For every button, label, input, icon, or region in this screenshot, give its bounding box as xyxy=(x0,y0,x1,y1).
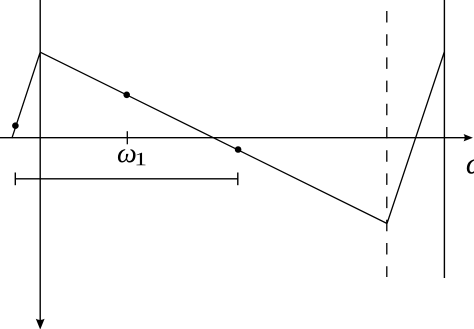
dot 3 xyxy=(235,146,242,153)
dot 2 xyxy=(123,92,130,99)
solid vertical line right xyxy=(443,0,445,278)
omega1 label: omega glyph xyxy=(118,149,136,162)
tick at omega1 xyxy=(126,131,128,144)
omega1 label: subscript 1 xyxy=(136,153,145,166)
omega axis label (clipped at right edge) xyxy=(467,159,474,173)
main descending segment xyxy=(40,52,387,223)
x axis arrowhead (right) xyxy=(464,134,473,141)
ruler right tick xyxy=(237,173,239,186)
ruler line xyxy=(15,178,238,180)
dot 1 xyxy=(12,122,19,129)
right steep segment xyxy=(387,52,444,224)
ruler left tick xyxy=(14,173,16,186)
dashed vertical line xyxy=(386,11,388,277)
left steep segment xyxy=(12,52,40,138)
y axis vertical line xyxy=(39,0,41,320)
x axis horizontal line xyxy=(0,137,465,139)
y axis arrowhead (down) xyxy=(36,319,45,329)
